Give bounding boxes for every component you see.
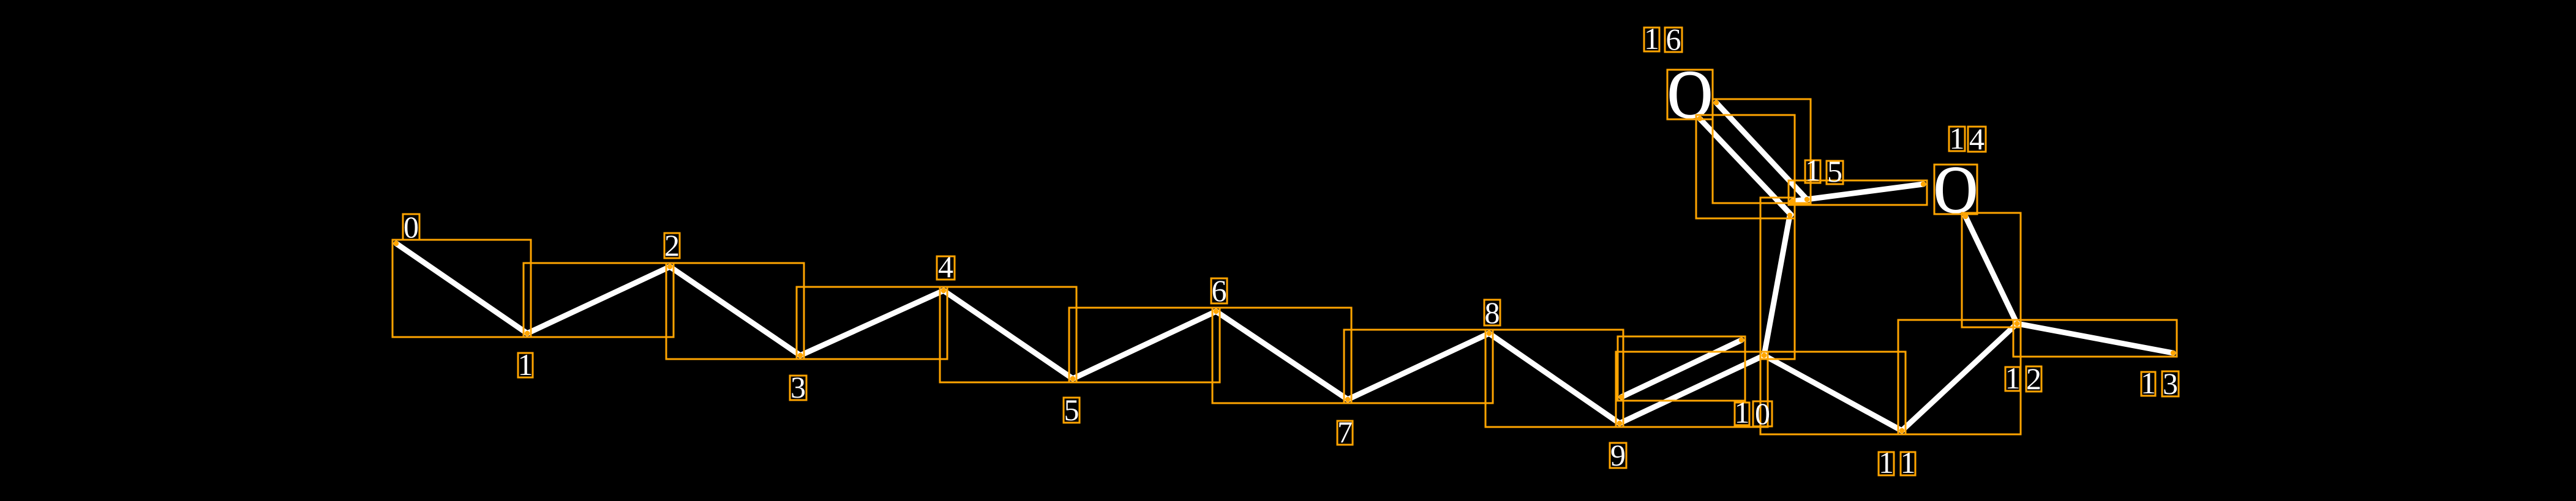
svg-text:O: O xyxy=(1934,152,1978,227)
svg-text:6: 6 xyxy=(1212,273,1227,308)
atom 10 dot xyxy=(1762,353,1767,358)
atom 5 dot xyxy=(1070,376,1075,381)
bond 9-10 inner line end dot xyxy=(1739,338,1744,343)
bond 0-1 box xyxy=(392,240,531,337)
label 7 xyxy=(1337,415,1353,449)
atom O14 glyph box xyxy=(1934,165,1977,214)
label 13 digit 1 xyxy=(2141,366,2156,400)
atom 8 dot xyxy=(1487,331,1492,336)
atom 7 dot xyxy=(1345,397,1350,402)
bond 15=O16 line B start dot xyxy=(1697,116,1702,121)
svg-text:3: 3 xyxy=(790,370,806,404)
label 11 digit 1 xyxy=(1879,445,1894,480)
svg-text:2: 2 xyxy=(664,228,680,262)
svg-text:4: 4 xyxy=(938,250,953,284)
bond 11-12 box xyxy=(1898,320,2021,434)
label 3 xyxy=(790,370,806,404)
bond 10-15 xyxy=(1764,215,1790,355)
svg-text:1: 1 xyxy=(2141,366,2156,400)
bond 15=O16 line A xyxy=(1716,103,1807,199)
svg-text:2: 2 xyxy=(2026,362,2041,396)
bond 10-11 xyxy=(1764,355,1902,431)
bond 8-9 box xyxy=(1485,330,1623,427)
bond 7-8 box xyxy=(1344,330,1493,403)
bond 15=O16 line B xyxy=(1700,119,1791,215)
svg-text:1: 1 xyxy=(518,347,533,382)
bond 2-3 box xyxy=(666,263,804,359)
svg-text:3: 3 xyxy=(2163,366,2178,401)
bond 5-6 box xyxy=(1069,308,1220,382)
atom 0 dot xyxy=(394,241,399,246)
svg-text:1: 1 xyxy=(1879,445,1894,480)
bond 11-12 xyxy=(1902,324,2017,431)
atom O16 glyph box xyxy=(1667,70,1713,119)
svg-text:7: 7 xyxy=(1337,415,1353,449)
svg-text:6: 6 xyxy=(1666,22,1681,56)
bond 6-7 box xyxy=(1212,308,1351,403)
label 4 xyxy=(937,250,955,284)
svg-text:0: 0 xyxy=(1755,396,1770,431)
atom 1 dot xyxy=(525,331,530,336)
svg-text:1: 1 xyxy=(1901,445,1916,480)
label 6 xyxy=(1211,273,1227,308)
bond 12-13 box xyxy=(2013,320,2177,357)
atom 9 dot xyxy=(1617,421,1622,426)
label 2 xyxy=(664,228,680,262)
svg-text:5: 5 xyxy=(1064,393,1080,427)
svg-text:9: 9 xyxy=(1610,438,1626,472)
bond 10-15 box xyxy=(1760,198,1795,359)
label 12 digit 2 xyxy=(2026,362,2041,396)
svg-text:1: 1 xyxy=(1805,153,1820,187)
label 5 xyxy=(1064,393,1080,427)
label 9 xyxy=(1610,438,1626,472)
svg-text:4: 4 xyxy=(1969,122,1985,156)
atom 11 dot xyxy=(1899,428,1904,433)
bond O14-12 box xyxy=(1962,213,2021,327)
bond 3-4 box xyxy=(797,287,947,359)
bond 12-13 xyxy=(2017,324,2173,353)
bond 15-O14 box xyxy=(1789,180,1927,205)
bond O14-12 xyxy=(1966,217,2017,324)
label 11 digit 1b xyxy=(1901,445,1916,480)
svg-text:8: 8 xyxy=(1485,295,1500,330)
label 16 digit 1 xyxy=(1644,21,1659,56)
label 15 digit 5 xyxy=(1827,154,1843,188)
atom 12 dot xyxy=(2015,321,2019,326)
label 13 digit 3 xyxy=(2162,366,2179,401)
bond 15=O16 line A start dot xyxy=(1714,100,1719,105)
bond 9-10 inner line start dot xyxy=(1619,395,1624,399)
bond 6-7 xyxy=(1216,311,1348,399)
svg-text:1: 1 xyxy=(2005,361,2021,395)
bond 2-3 xyxy=(670,267,800,355)
svg-text:O: O xyxy=(1667,57,1713,133)
label 14 digit 4 xyxy=(1968,122,1986,156)
label 0 xyxy=(403,210,419,244)
svg-text:1: 1 xyxy=(1950,121,1965,155)
label 16 digit 6 xyxy=(1665,22,1682,56)
bond 15-O14 xyxy=(1792,184,1923,201)
atom 2 dot xyxy=(667,264,672,269)
bond 0-1 xyxy=(396,243,527,333)
bond 15=O16 line A end dot xyxy=(1804,197,1809,202)
label 15 digit 1 xyxy=(1805,153,1820,187)
label 8 xyxy=(1484,295,1500,330)
bond 15=O16 line B end dot xyxy=(1787,213,1792,218)
bond O14-12 start dot xyxy=(1963,214,1968,219)
label 1 xyxy=(518,347,533,382)
svg-text:1: 1 xyxy=(1644,21,1659,56)
bond 4-5 box xyxy=(940,287,1076,382)
bond 15-O14 end dot xyxy=(1921,182,1926,187)
bond 1-2 xyxy=(527,267,670,333)
label 10 digit 1 xyxy=(1735,395,1750,429)
bond 15=O16 line A box xyxy=(1713,99,1811,203)
atom 6 dot xyxy=(1214,309,1219,314)
bond 7-8 xyxy=(1348,333,1489,399)
bond 15=O16 line B box xyxy=(1696,115,1795,218)
svg-text:1: 1 xyxy=(1735,395,1750,429)
bond 9-10 inner box xyxy=(1618,336,1745,401)
bond 1-2 box xyxy=(524,263,674,337)
label 10 digit 0 xyxy=(1753,396,1772,431)
bond 3-4 xyxy=(800,291,944,355)
bond 4-5 xyxy=(944,291,1073,379)
bond 9-10 inner line xyxy=(1621,340,1741,397)
svg-text:0: 0 xyxy=(404,210,419,244)
atom 4 dot xyxy=(941,288,946,293)
atom 15 dot xyxy=(1790,199,1795,204)
bond 9-10 main box xyxy=(1616,352,1768,427)
label 14 digit 1 xyxy=(1949,121,1965,155)
bond 5-6 xyxy=(1073,311,1216,379)
atom 3 dot xyxy=(798,353,803,358)
atom 13 dot xyxy=(2171,351,2176,355)
bond 8-9 xyxy=(1489,333,1620,423)
bond 9-10 main line xyxy=(1620,355,1764,423)
label 12 digit 1 xyxy=(2005,361,2021,395)
bond 10-11 box xyxy=(1760,352,1906,434)
svg-text:5: 5 xyxy=(1827,154,1842,188)
